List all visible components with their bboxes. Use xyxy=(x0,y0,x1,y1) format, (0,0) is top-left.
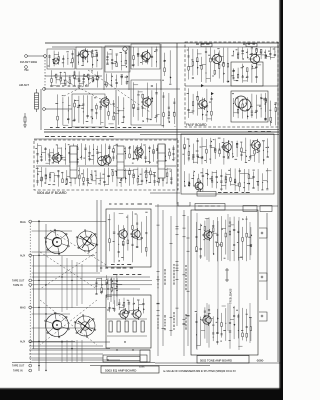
band A right components xyxy=(161,92,175,128)
FM IF stage 2 components xyxy=(187,88,213,122)
box FM ratio detector xyxy=(231,91,268,122)
wire vertical mid lower xyxy=(115,90,117,129)
junction dots bands C and D xyxy=(38,221,133,371)
wire band B bus xyxy=(140,134,279,136)
label row under EQ box 2 xyxy=(100,268,133,269)
scan black bottom bar xyxy=(0,387,283,389)
vertical wire name labels mid column xyxy=(158,264,187,330)
wire FM IF mid rail xyxy=(185,85,278,87)
FM RF input components xyxy=(48,50,74,67)
dashed selector linkage X channel 1 xyxy=(40,230,108,289)
dashed selector linkage X channel 2 xyxy=(40,300,97,345)
rotary switch SW3 function selector channel 2 xyxy=(45,312,70,338)
wire rail y289 xyxy=(32,288,140,290)
small box MPX out xyxy=(197,192,216,197)
antenna coil L1 xyxy=(35,89,39,112)
contact bracket right 3 xyxy=(259,312,267,321)
MPX decoder components upper xyxy=(182,137,269,164)
transistor Q19 EQ amp 4 xyxy=(131,308,141,320)
svg-text:TAPE IN: TAPE IN xyxy=(13,284,23,287)
connector block inner xyxy=(107,357,140,361)
terminal AUX R xyxy=(29,340,32,343)
wire AM ant second lead xyxy=(45,108,72,110)
transistor Q14 MPX output xyxy=(193,180,203,192)
terminal TAPE IN L xyxy=(29,283,32,286)
wire verticals tone section xyxy=(197,213,250,350)
svg-text:5003 EQ AMP BOARD: 5003 EQ AMP BOARD xyxy=(105,369,137,373)
shield box FM mixer xyxy=(105,46,130,72)
wire bundle below switches channel 2 xyxy=(62,340,82,362)
wire channel 2 rail 346 xyxy=(29,345,103,347)
shield box FM RF input xyxy=(47,49,75,69)
wire left bus x33 xyxy=(33,255,35,349)
outline tone amp section xyxy=(191,210,258,355)
labels tone input box xyxy=(198,206,220,207)
dashed gang link 2 xyxy=(88,70,150,112)
svg-text:MAG: MAG xyxy=(20,221,26,224)
svg-text:AM ANT: AM ANT xyxy=(19,83,29,87)
wire far column x267 xyxy=(266,213,268,300)
coil box on bus 2 xyxy=(246,44,257,47)
transistor Q2 FM osc xyxy=(140,50,150,62)
resistor R1 AM ant bias xyxy=(24,113,26,125)
IF transformer T5 xyxy=(117,146,124,178)
coil label top bus 1 xyxy=(196,44,210,45)
svg-text:5002 TONE AMP BOARD: 5002 TONE AMP BOARD xyxy=(200,358,232,362)
label box 5002 xyxy=(197,356,249,364)
wire left bus x46 xyxy=(45,224,47,370)
FM AGC components xyxy=(51,70,99,88)
wire verticals mid column xyxy=(158,204,188,356)
ground AM ant xyxy=(23,125,27,127)
transistor Q7 FM IF 3 double circle xyxy=(235,96,251,111)
wire ladder channel 2 inputs xyxy=(32,307,110,348)
tape jack wiring components xyxy=(95,274,122,297)
svg-text:TAPE IN: TAPE IN xyxy=(13,370,23,373)
shield box AM oscillator xyxy=(131,80,161,125)
FM IF top row right components xyxy=(232,47,277,60)
terminal TAPE OUT L xyxy=(29,279,32,282)
transistor Q1 FM RF amp xyxy=(78,48,88,60)
shield box FM RF amp xyxy=(76,47,102,69)
MPX decoder components lower xyxy=(184,168,272,192)
wire long vertical x177 xyxy=(176,43,178,134)
FM IF input components xyxy=(187,47,229,83)
transistor Q5 FM IF 1 xyxy=(211,53,222,66)
wire band A rail y76 xyxy=(45,75,102,77)
label row under EQ box 1 xyxy=(111,264,131,265)
wire band A bottom rail xyxy=(44,131,279,133)
terminal AM antenna xyxy=(43,88,46,91)
transistor Q3 AM converter xyxy=(99,96,109,108)
transistor Q15 EQ amp 1 xyxy=(117,228,127,240)
wire rail y277 xyxy=(32,276,150,278)
terminal TAPE OUT R xyxy=(29,364,32,367)
dashed gang link 3 xyxy=(64,78,100,96)
EQ amp components channel 2 xyxy=(107,298,145,315)
svg-text:№ VALUE OF CONDENSERS MM Ж: № VALUE OF CONDENSERS MM Ж STLITTED (5Z8… xyxy=(163,370,236,373)
labels under FM row xyxy=(50,86,88,87)
dashed outline FM IF BOARD xyxy=(185,42,278,127)
test point TP1 xyxy=(123,47,127,51)
terminal AM antenna 2 xyxy=(43,108,46,111)
diode D2 xyxy=(211,92,214,95)
box FM IF filter xyxy=(231,62,263,86)
svg-text:5004 AM IF BOARD: 5004 AM IF BOARD xyxy=(37,191,67,195)
wire connector row 1 xyxy=(150,192,180,194)
FM IF right edge components xyxy=(263,97,277,126)
wire divider x161 xyxy=(160,44,162,90)
rotary switch SW1 function selector channel 1 xyxy=(45,229,70,255)
wire rail y360 xyxy=(32,359,120,361)
transistor Q9 AM IF 1 xyxy=(51,152,61,164)
FM IF filter components xyxy=(231,64,261,83)
small box right header 1 xyxy=(243,206,257,212)
transistor Q13 MPX 2 xyxy=(250,139,260,151)
FM mixer lower components xyxy=(104,73,129,87)
terminal FM antenna ground xyxy=(25,66,28,69)
dashed outline AM IF BOARD xyxy=(34,140,178,190)
svg-text:75Ω: 75Ω xyxy=(24,69,29,72)
coil T1 FM front end xyxy=(53,58,59,64)
svg-text:MAG: MAG xyxy=(20,307,26,310)
terminal FM antenna A xyxy=(25,55,28,58)
outline MPX decoder box xyxy=(181,134,274,194)
AM IF board components row 2 xyxy=(36,167,173,187)
wire vertical x101 xyxy=(100,200,102,272)
wire vertical x177 band B xyxy=(176,134,178,204)
potentiometer VR1 bass xyxy=(225,268,229,282)
shield box AM converter xyxy=(72,94,105,127)
transistor Q6 FM IF 2 xyxy=(249,53,260,66)
FM oscillator components xyxy=(132,46,158,67)
wire divider x104 xyxy=(103,47,105,90)
dashed gang link 1 xyxy=(60,78,118,108)
terminal FM antenna B xyxy=(44,55,47,58)
contact bracket right 2 xyxy=(259,273,267,281)
svg-text:TAPE OUT: TAPE OUT xyxy=(12,279,25,282)
terminal MAG R xyxy=(29,306,32,309)
AM tuning components mid xyxy=(107,96,125,125)
wire FM ant link xyxy=(27,55,44,57)
wire band B top rail xyxy=(34,138,178,140)
band A divider components xyxy=(162,50,171,84)
FM mixer components xyxy=(106,49,127,70)
wire bundle below EQ box channel 1 xyxy=(108,278,117,306)
wire dashed FM ant drop xyxy=(44,57,46,88)
tone amp components channel 2 xyxy=(195,304,252,349)
wire tape out rail xyxy=(12,362,155,364)
wire bottom rail right xyxy=(155,362,283,364)
header text band C xyxy=(109,204,152,205)
wire above label boxes xyxy=(90,365,210,367)
svg-text:3008s: 3008s xyxy=(139,367,144,369)
transistor Q18 EQ amp 3 xyxy=(118,308,128,320)
svg-text:FM ANT 300Ω: FM ANT 300Ω xyxy=(20,60,37,64)
svg-text:AUX: AUX xyxy=(20,255,25,258)
small box left of 5002 xyxy=(140,350,150,362)
contact bracket right 1 xyxy=(259,228,267,238)
FM ratio detector components xyxy=(232,93,267,119)
wire band A mid rail xyxy=(44,88,180,90)
coil box on bus 1 xyxy=(201,44,212,47)
transistor Q11 AM detector xyxy=(133,146,143,158)
IF transformer T6 xyxy=(158,144,165,178)
shield box FM oscillator xyxy=(131,44,160,69)
label row under EQ box 3 xyxy=(113,274,141,275)
FM RF amp components xyxy=(77,49,99,68)
transistor Q16 EQ amp 2 xyxy=(130,228,140,240)
small box tone input xyxy=(195,204,225,211)
wire connector row 2 xyxy=(155,205,278,207)
coil T3 AM IF transformer xyxy=(98,157,107,166)
terminal TAPE IN R xyxy=(29,369,32,372)
AM IF board components row 1 xyxy=(35,143,175,165)
wire ladder channel 1 inputs xyxy=(32,222,152,285)
labels band B top xyxy=(45,136,114,137)
scan black right strip xyxy=(279,0,281,400)
transistor Q8 FM IF 4 xyxy=(197,98,207,110)
svg-text:-5080-: -5080- xyxy=(256,358,264,362)
svg-text:FM IF BOARD: FM IF BOARD xyxy=(186,123,207,127)
AM converter components xyxy=(72,95,103,125)
wire channel 2 rail 350 xyxy=(29,349,150,351)
outline EQ amp box channel 2 xyxy=(106,295,151,348)
outline EQ amp box channel 1 xyxy=(106,209,151,267)
labels connector row 1 xyxy=(218,192,250,193)
svg-text:AUX: AUX xyxy=(20,341,25,344)
wire top supply bus xyxy=(45,42,279,44)
wire vertical x97 xyxy=(96,200,98,272)
svg-text:BASS: BASS xyxy=(230,288,233,295)
wire channel 2 rail 358 xyxy=(29,357,103,359)
wire left bus x39 xyxy=(38,220,40,371)
wire dashed input bus 2 xyxy=(29,286,31,364)
wire band A lower rail xyxy=(44,129,279,131)
label box 5003 xyxy=(101,366,159,373)
resistor row channel 2 xyxy=(107,319,147,336)
EQ amp components channel 1 xyxy=(108,211,148,262)
wire bundle between switch banks xyxy=(62,256,82,312)
IF transformer T4 xyxy=(70,146,77,178)
AM osc components xyxy=(132,82,159,122)
tone amp components channel 1 xyxy=(195,216,252,262)
coil label top bus 2 xyxy=(243,44,255,45)
wire AM IF mid rail xyxy=(36,165,176,167)
wire divider x129 xyxy=(128,46,130,90)
transistor Q4 AM osc xyxy=(141,96,151,108)
svg-text:TREBLE: TREBLE xyxy=(230,294,233,304)
rotary switch SW4 tape monitor channel 2 xyxy=(74,315,96,338)
labels on band A bottom rail xyxy=(50,127,141,128)
wire channel 2 rail 342 xyxy=(29,341,110,343)
terminal MAG L xyxy=(29,220,32,223)
tiny text under FM IF board xyxy=(248,131,271,132)
rotary switch SW2 tape monitor channel 1 xyxy=(76,230,98,253)
transistor Q10 AM IF 2 xyxy=(101,154,111,166)
transistor Q17 tone amp 1 xyxy=(202,229,212,241)
diode D1 xyxy=(201,84,204,87)
wire second bus xyxy=(52,46,279,48)
svg-text:TAPE OUT: TAPE OUT xyxy=(12,365,25,368)
transistor Q20 tone amp 2 xyxy=(201,314,211,326)
wire jog step xyxy=(178,202,190,206)
small box right header 2 xyxy=(260,206,272,212)
wire channel 2 rail 354 xyxy=(29,353,103,355)
wire dashed input bus 1 xyxy=(29,223,31,279)
tick marks mid column xyxy=(157,216,190,331)
wire far right vertical xyxy=(277,42,279,362)
AM input components xyxy=(55,94,70,127)
connector block outer xyxy=(103,355,147,362)
wire vertical x41 AM ant xyxy=(40,89,42,130)
transistor Q12 MPX 1 xyxy=(221,141,231,153)
terminal AUX L xyxy=(29,254,32,257)
